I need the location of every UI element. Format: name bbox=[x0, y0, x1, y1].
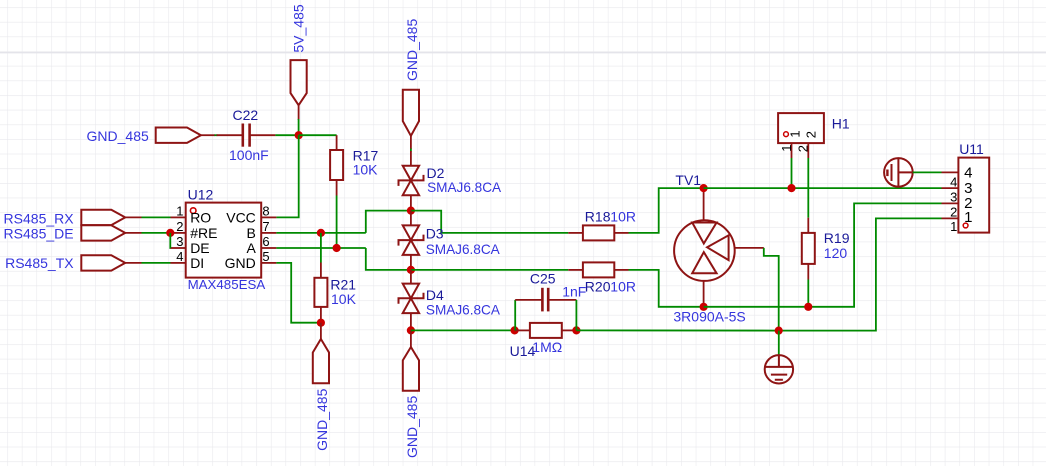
svg-text:2: 2 bbox=[804, 131, 819, 138]
svg-text:R20: R20 bbox=[585, 278, 611, 294]
svg-text:10K: 10K bbox=[353, 162, 379, 178]
svg-text:2: 2 bbox=[796, 145, 811, 152]
wire C22 to junction bbox=[275, 134, 298, 136]
TVS diode D2 bbox=[403, 166, 419, 181]
svg-text:D4: D4 bbox=[426, 287, 444, 303]
junction TV1 top bbox=[700, 184, 708, 192]
U12 pin 3 DE bbox=[171, 247, 186, 249]
wire TV1 right to earth junction bbox=[764, 248, 779, 331]
wire U12 pin6 A to jog bbox=[276, 247, 365, 249]
wire RS485_TX to U12 pin4 bbox=[125, 262, 141, 264]
junction earth symbol node bbox=[775, 327, 783, 335]
svg-text:120: 120 bbox=[824, 245, 848, 261]
svg-text:SMAJ6.8CA: SMAJ6.8CA bbox=[426, 303, 501, 318]
wire earth net right to U11 pin1 riser bbox=[779, 218, 942, 330]
U12 pin 6 A bbox=[261, 247, 276, 249]
junction at 5V node bbox=[295, 131, 303, 139]
wire junction to R17 top bbox=[299, 134, 337, 136]
svg-text:D3: D3 bbox=[426, 225, 444, 241]
wire U12 pin5 GND to R21 bottom bbox=[276, 263, 321, 323]
global label RS485_TX bbox=[81, 255, 125, 270]
junction R17 bottom on A net bbox=[333, 244, 341, 252]
svg-text:6: 6 bbox=[262, 234, 269, 249]
svg-text:4: 4 bbox=[176, 249, 183, 264]
junction D3/D4 node A bbox=[407, 266, 415, 274]
wire U12 pin7 B to jog bbox=[276, 232, 365, 234]
pin1 indicator circle U11 bbox=[963, 223, 968, 228]
TVS diode D4 bbox=[410, 270, 412, 284]
TV1 top pin bbox=[703, 188, 705, 220]
capacitor C22 bbox=[217, 134, 243, 136]
svg-text:#RE: #RE bbox=[190, 225, 217, 241]
U12 pin 5 GND bbox=[261, 262, 276, 264]
svg-text:3R090A-5S: 3R090A-5S bbox=[673, 308, 745, 324]
svg-text:10R: 10R bbox=[610, 278, 636, 294]
wire R20 to TV1 bottom net bbox=[629, 270, 704, 307]
junction U14 left bbox=[510, 326, 518, 334]
wire node B to right jog down to R18 bbox=[411, 211, 568, 233]
U12 pin 8 VCC bbox=[261, 216, 276, 218]
wire RS485_RX to U12 pin1 bbox=[125, 216, 141, 218]
U11 pin 4 bbox=[942, 171, 959, 173]
svg-text:4: 4 bbox=[950, 174, 957, 189]
svg-text:1: 1 bbox=[950, 219, 957, 234]
junction U14 right bbox=[572, 326, 580, 334]
U11 pin 2 bbox=[942, 202, 959, 204]
junction TV1 bottom bbox=[700, 303, 708, 311]
H1 pin 1 bbox=[791, 143, 793, 158]
wire 5V_485 to junction bbox=[298, 119, 300, 135]
global label RS485_DE bbox=[81, 225, 125, 240]
global label GND_485 (left) bbox=[156, 128, 201, 143]
svg-text:1: 1 bbox=[964, 209, 972, 226]
svg-text:R19: R19 bbox=[824, 230, 850, 246]
junction H1 pin1 on y188 bbox=[787, 184, 795, 192]
connector U11 bbox=[958, 158, 989, 233]
TV1 right electrode pin bbox=[735, 247, 764, 249]
TVS diode D3 bbox=[410, 211, 412, 226]
resistor U14 1Mohm bbox=[515, 329, 530, 331]
svg-text:7: 7 bbox=[262, 219, 269, 234]
svg-text:10R: 10R bbox=[610, 209, 636, 225]
wire junction down to U12 VCC pin bbox=[276, 135, 298, 217]
svg-text:U11: U11 bbox=[959, 141, 984, 157]
wire D4 bottom bbox=[410, 313, 412, 330]
svg-text:1nF: 1nF bbox=[562, 283, 586, 299]
wire D4 node to U14 left bbox=[411, 329, 515, 331]
svg-text:GND_485: GND_485 bbox=[87, 128, 149, 144]
wire node A to R20 bbox=[411, 269, 568, 271]
svg-text:B: B bbox=[246, 225, 255, 241]
U11 pin 3 bbox=[942, 187, 959, 189]
resistor R18 10R bbox=[568, 232, 583, 234]
svg-text:3: 3 bbox=[176, 234, 183, 249]
svg-text:RS485_TX: RS485_TX bbox=[5, 255, 74, 271]
svg-text:2: 2 bbox=[950, 205, 957, 220]
svg-text:8: 8 bbox=[262, 203, 269, 218]
IC U12 MAX485ESA bbox=[186, 203, 262, 278]
connector H1 bbox=[778, 113, 824, 143]
power symbol GND_485 above D2 bbox=[403, 90, 419, 136]
svg-text:C25: C25 bbox=[530, 270, 556, 286]
wire y188 net TV1 to U11 pin3 bbox=[704, 187, 942, 189]
wire R18 to y188 net bbox=[629, 188, 704, 233]
gas discharge tube TV1 bbox=[674, 220, 735, 281]
U12 pin 4 DI bbox=[171, 262, 186, 264]
svg-text:MAX485ESA: MAX485ESA bbox=[188, 277, 266, 292]
junction D4 bottom earth net bbox=[407, 326, 415, 334]
svg-text:SMAJ6.8CA: SMAJ6.8CA bbox=[427, 180, 502, 195]
U12 pin 1 RO bbox=[171, 216, 186, 218]
svg-text:RS485_RX: RS485_RX bbox=[4, 210, 75, 226]
resistor R17 bbox=[336, 135, 338, 150]
wire U14 right to earth junction bbox=[576, 329, 778, 331]
wire B jog up to D2/D3 node bbox=[366, 211, 411, 233]
resistor R21 bbox=[320, 233, 322, 263]
svg-text:3: 3 bbox=[950, 189, 957, 204]
wire RS485_DE to U12 pin2 bbox=[125, 232, 141, 234]
resistor R20 10R bbox=[568, 269, 583, 271]
gas discharge tube 2-electrode at U11 pin4 bbox=[884, 158, 913, 187]
U11 pin 1 bbox=[942, 217, 959, 219]
resistor R19 120 bbox=[807, 218, 809, 233]
wire H1 pin1 down to y188 bbox=[791, 158, 793, 188]
svg-text:GND: GND bbox=[225, 255, 256, 271]
svg-text:1: 1 bbox=[779, 145, 794, 152]
svg-text:A: A bbox=[246, 240, 256, 256]
junction DE node bbox=[166, 229, 174, 237]
svg-text:DE: DE bbox=[190, 240, 209, 256]
svg-text:VCC: VCC bbox=[226, 209, 256, 225]
svg-text:5: 5 bbox=[262, 249, 269, 264]
capacitor C25 parallel bbox=[514, 300, 516, 331]
wire GND_485 to D2 top bbox=[410, 136, 412, 149]
wire D3 bottom to node bbox=[410, 255, 412, 270]
junction R21 bottom bbox=[317, 319, 325, 327]
svg-text:GND_485: GND_485 bbox=[404, 396, 420, 458]
svg-text:H1: H1 bbox=[832, 115, 850, 131]
wire GND_485 to C22 (net GND_485, y=135) bbox=[201, 134, 215, 136]
H1 pin 2 bbox=[807, 143, 809, 158]
svg-text:1: 1 bbox=[787, 130, 802, 137]
svg-text:C22: C22 bbox=[233, 107, 259, 123]
wire GDT to U11 pin4 bbox=[913, 171, 942, 173]
svg-text:GND_485: GND_485 bbox=[404, 19, 420, 81]
earth ground symbol bbox=[778, 331, 780, 356]
svg-text:100nF: 100nF bbox=[229, 147, 269, 163]
svg-text:RS485_DE: RS485_DE bbox=[4, 225, 74, 241]
svg-text:GND_485: GND_485 bbox=[314, 388, 330, 450]
svg-text:1: 1 bbox=[176, 203, 183, 218]
TV1 bottom pin bbox=[703, 281, 705, 307]
svg-text:RO: RO bbox=[190, 209, 211, 225]
junction R21 top bbox=[317, 229, 325, 237]
svg-text:5V_485: 5V_485 bbox=[291, 4, 307, 52]
svg-text:1MΩ: 1MΩ bbox=[532, 339, 562, 355]
svg-text:R18: R18 bbox=[585, 209, 611, 225]
wire D2 bottom to node bbox=[410, 195, 412, 210]
svg-text:U12: U12 bbox=[188, 187, 214, 203]
wire H1 pin2 down to R19 bbox=[807, 158, 809, 218]
U12 pin 7 B bbox=[261, 232, 276, 234]
power symbol GND_485 below R21 bbox=[320, 323, 322, 339]
wire DE node down to U12 pin3 bbox=[169, 233, 171, 248]
pin1 indicator circle H1 bbox=[784, 132, 789, 137]
svg-text:SMAJ6.8CA: SMAJ6.8CA bbox=[426, 242, 501, 257]
svg-text:10K: 10K bbox=[331, 291, 357, 307]
junction R19 bottom bbox=[804, 303, 812, 311]
svg-text:D2: D2 bbox=[427, 165, 445, 181]
U12 pin 2 #RE bbox=[171, 232, 186, 234]
wire R17 bottom to A net bbox=[336, 196, 338, 249]
wire TV1 bottom net to U11 pin2 riser bbox=[704, 203, 942, 306]
wire A jog down to D3/D4 node bbox=[366, 248, 411, 270]
svg-text:TV1: TV1 bbox=[675, 172, 701, 188]
global label RS485_RX bbox=[81, 210, 125, 225]
svg-text:DI: DI bbox=[190, 255, 204, 271]
power symbol GND_485 below D4 bbox=[410, 330, 412, 347]
pin1 indicator circle U12 bbox=[190, 208, 196, 214]
power symbol 5V_485 bbox=[291, 60, 307, 105]
junction D2/D3 node B bbox=[407, 207, 415, 215]
wire R19 bottom to TV1 bottom net bbox=[807, 280, 809, 307]
svg-text:2: 2 bbox=[176, 219, 183, 234]
